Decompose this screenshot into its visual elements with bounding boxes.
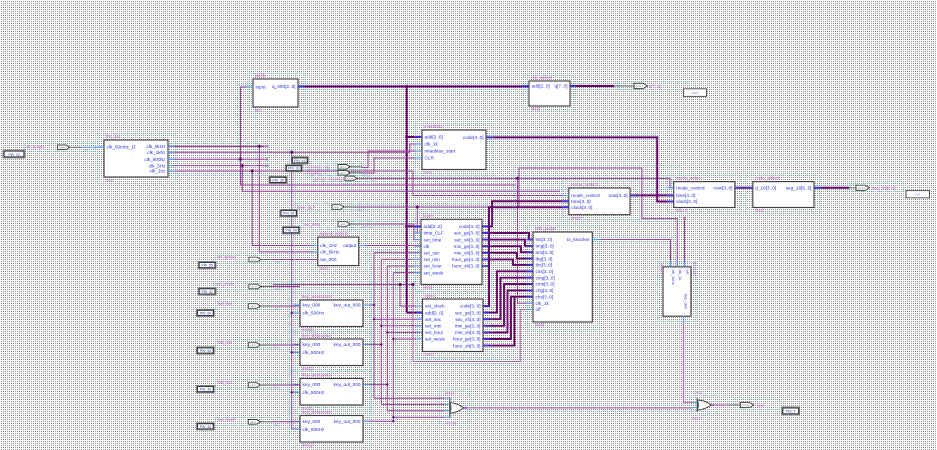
svg-text:clk_500Hz: clk_500Hz (303, 350, 326, 355)
svg-text:clk_1k: clk_1k (425, 142, 439, 147)
svg-text:PIN_54: PIN_54 (200, 311, 211, 315)
svg-text:clk_1hz: clk_1hz (150, 169, 167, 174)
svg-text:mode_select: mode_select (571, 182, 598, 187)
svg-text:VCC: VCC (358, 209, 363, 212)
svg-text:INPUT: INPUT (250, 345, 257, 347)
svg-text:VCC: VCC (274, 387, 279, 390)
svg-text:set_min: set_min (424, 257, 441, 262)
svg-text:VCC: VCC (371, 180, 376, 183)
svg-text:PIN_52: PIN_52 (200, 349, 211, 353)
svg-text:set_min: set_min (425, 324, 442, 329)
svg-text:cmg[3..0]: cmg[3..0] (536, 275, 555, 280)
svg-text:bee_000: bee_000 (684, 294, 688, 309)
svg-text:inst10: inst10 (571, 215, 583, 220)
svg-text:AE22: AE22 (692, 91, 699, 95)
svg-text:PIN_42: PIN_42 (201, 290, 212, 294)
svg-text:now[3..0]: now[3..0] (713, 186, 732, 191)
svg-text:PIN_59: PIN_59 (201, 264, 212, 268)
svg-text:hour_sh[3..0]: hour_sh[3..0] (452, 264, 479, 269)
svg-text:set_week: set_week (425, 337, 445, 342)
svg-text:set_sec: set_sec (424, 251, 441, 256)
svg-text:set_week: set_week (218, 417, 237, 422)
svg-text:key_debounce: key_debounce (302, 294, 332, 299)
svg-text:INPUT: INPUT (334, 207, 341, 209)
svg-text:clk_1k: clk_1k (678, 270, 682, 281)
svg-text:hour_sh[3..0]: hour_sh[3..0] (453, 343, 480, 348)
svg-text:set_time: set_time (424, 237, 442, 242)
svg-text:miaobiao_start: miaobiao_start (425, 149, 456, 154)
svg-text:chg[3..0]: chg[3..0] (536, 288, 554, 293)
svg-text:miaobiao: miaobiao (424, 124, 443, 129)
svg-text:key_000: key_000 (303, 342, 321, 347)
svg-text:clk_50mhz_1f: clk_50mhz_1f (107, 145, 137, 150)
svg-text:sec_ge[3..0]: sec_ge[3..0] (455, 310, 481, 315)
svg-text:inst5: inst5 (531, 107, 541, 112)
svg-text:clk_500hz: clk_500hz (144, 157, 166, 162)
svg-text:seg_16[6..0]: seg_16[6..0] (872, 186, 895, 191)
svg-text:PIN_46: PIN_46 (200, 425, 211, 429)
svg-text:VCC: VCC (274, 423, 279, 426)
svg-text:PIN_Y: PIN_Y (786, 410, 797, 414)
svg-text:inst17: inst17 (692, 416, 702, 421)
svg-text:key_out_000: key_out_000 (334, 419, 361, 424)
svg-text:VCC: VCC (364, 168, 369, 171)
svg-text:timer: timer (423, 213, 434, 218)
svg-text:bee: bee (757, 403, 765, 408)
svg-text:mode_control: mode_control (571, 193, 599, 198)
svg-text:mode_control: mode_control (676, 186, 704, 191)
svg-text:INPUT: INPUT (251, 287, 258, 289)
svg-text:thg[3..0]: thg[3..0] (536, 256, 553, 261)
svg-text:to_knocker: to_knocker (567, 237, 590, 242)
svg-text:time[3..0]: time[3..0] (676, 193, 695, 198)
svg-text:chs[3..0]: chs[3..0] (536, 294, 554, 299)
svg-text:clk_500Hz: clk_500Hz (303, 390, 326, 395)
svg-text:PIN_30: PIN_30 (200, 388, 211, 392)
svg-text:CLR: CLR (425, 156, 435, 161)
svg-text:PIN_43: PIN_43 (294, 159, 305, 163)
svg-text:key_000: key_000 (303, 303, 321, 308)
svg-text:key_debounce: key_debounce (302, 333, 332, 338)
svg-text:VCC: VCC (274, 261, 279, 264)
svg-text:INPUT: INPUT (340, 224, 347, 226)
svg-text:set_sec: set_sec (425, 317, 442, 322)
svg-text:set_hour: set_hour (424, 264, 443, 269)
svg-text:VCC: VCC (364, 174, 369, 177)
svg-text:set_clock: set_clock (425, 304, 445, 309)
svg-text:a[7..0]: a[7..0] (649, 84, 661, 89)
svg-text:tss[3..0]: tss[3..0] (536, 237, 552, 242)
svg-text:min_ge[3..0]: min_ge[3..0] (455, 324, 481, 329)
svg-text:inst12: inst12 (676, 208, 688, 213)
svg-text:seg_16[6..0]: seg_16[6..0] (786, 186, 812, 191)
svg-text:clk_1Hz: clk_1Hz (320, 243, 337, 248)
svg-text:code[3..0]: code[3..0] (460, 304, 481, 309)
svg-text:VCC: VCC (274, 308, 279, 311)
svg-text:jishi8: jishi8 (254, 73, 266, 78)
svg-text:PIN_44: PIN_44 (285, 229, 296, 233)
svg-text:min_ge[3..0]: min_ge[3..0] (454, 244, 480, 249)
svg-text:VCC: VCC (274, 347, 279, 350)
svg-text:clk_5kHz: clk_5kHz (320, 250, 340, 255)
svg-text:bt4or: bt4or (445, 391, 455, 396)
svg-text:input: input (256, 85, 267, 90)
svg-text:clock[3..0]: clock[3..0] (571, 205, 592, 210)
svg-text:inst1: inst1 (320, 266, 330, 271)
svg-text:dig_select: dig_select (531, 75, 552, 80)
svg-text:set_clock: set_clock (216, 282, 234, 287)
svg-text:sw_speed: sw_speed (217, 255, 237, 260)
svg-text:sec_sh[3..0]: sec_sh[3..0] (455, 317, 480, 322)
svg-text:clk: clk (424, 244, 430, 249)
svg-text:inst: inst (106, 178, 114, 183)
svg-text:PIN_38: PIN_38 (272, 178, 283, 182)
svg-text:sec_sh[3..0]: sec_sh[3..0] (454, 237, 479, 242)
svg-text:min_sh[3..0]: min_sh[3..0] (454, 251, 480, 256)
svg-text:add[2..0]: add[2..0] (424, 224, 442, 229)
svg-text:code_select: code_select (755, 175, 780, 180)
svg-text:OUTPUT: OUTPUT (635, 86, 644, 88)
svg-text:key_debounce: key_debounce (302, 409, 332, 414)
svg-text:q_000[2..0]: q_000[2..0] (272, 84, 295, 89)
svg-text:set_hour: set_hour (425, 330, 444, 335)
svg-text:code[3..0]: code[3..0] (459, 224, 480, 229)
svg-text:PIN_39: PIN_39 (288, 167, 299, 171)
svg-text:clk_50MH: clk_50MH (26, 145, 45, 150)
svg-text:INPUT: INPUT (250, 306, 257, 308)
svg-text:OR2: OR2 (694, 390, 702, 395)
svg-text:clk_1k: clk_1k (536, 301, 550, 306)
svg-text:set_week: set_week (424, 270, 444, 275)
svg-text:miaobiao_c: miaobiao_c (306, 171, 326, 176)
svg-text:inst10: inst10 (302, 327, 314, 332)
svg-text:sw_000: sw_000 (320, 257, 337, 262)
svg-text:key_debounce: key_debounce (302, 372, 332, 377)
svg-text:choose_miaobiao: choose_miaobiao (313, 176, 345, 181)
svg-text:clk_500Hz: clk_500Hz (303, 311, 326, 316)
svg-text:set_time: set_time (304, 222, 320, 227)
svg-text:inst16: inst16 (446, 421, 456, 426)
svg-text:add[2..0]: add[2..0] (532, 84, 550, 89)
svg-text:mode_select: mode_select (676, 175, 703, 180)
svg-text:sec_ge[3..0]: sec_ge[3..0] (454, 231, 480, 236)
svg-text:q[7..0]: q[7..0] (554, 84, 567, 89)
svg-text:key_000: key_000 (303, 382, 321, 387)
svg-text:time_CLF: time_CLF (297, 205, 316, 210)
svg-text:PIN_23: PIN_23 (8, 153, 19, 157)
svg-text:tmg[3..0]: tmg[3..0] (536, 244, 554, 249)
svg-text:tms[3..0]: tms[3..0] (536, 250, 554, 255)
svg-text:inst2: inst2 (755, 208, 765, 213)
svg-text:VCC: VCC (364, 226, 369, 229)
svg-text:inst20: inst20 (660, 264, 664, 274)
svg-text:bell_judge: bell_judge (535, 226, 556, 231)
svg-text:output: output (343, 243, 357, 248)
svg-text:hour_ge[3..0]: hour_ge[3..0] (452, 257, 480, 262)
svg-text:hour_ge[3..0]: hour_ge[3..0] (453, 337, 481, 342)
svg-text:inst: inst (255, 108, 263, 113)
svg-text:set_sec: set_sec (218, 301, 232, 306)
svg-text:clk_1kHz: clk_1kHz (671, 270, 675, 286)
svg-text:fre_div: fre_div (106, 134, 120, 139)
svg-text:add[2..0]: add[2..0] (425, 310, 443, 315)
svg-text:OUTPUT: OUTPUT (857, 188, 866, 190)
svg-text:INPUT: INPUT (250, 385, 257, 387)
svg-text:min_sh[3..0]: min_sh[3..0] (455, 330, 481, 335)
svg-text:clk_5kHz: clk_5kHz (146, 144, 166, 149)
svg-text:inst: inst (424, 170, 432, 175)
svg-text:set_hou: set_hou (218, 380, 234, 385)
svg-text:ths[3..0]: ths[3..0] (536, 263, 553, 268)
svg-text:key_000: key_000 (303, 419, 321, 424)
svg-text:speed_select: speed_select (320, 231, 348, 236)
svg-text:INPUT: INPUT (340, 167, 347, 169)
svg-text:VCC: VCC (274, 288, 279, 291)
svg-text:clock[3..0]: clock[3..0] (676, 199, 697, 204)
svg-text:key_out_000: key_out_000 (334, 342, 361, 347)
svg-text:clk_5Hz: clk_5Hz (149, 163, 166, 168)
svg-text:key_out_000: key_out_000 (334, 303, 361, 308)
svg-text:key_out_000: key_out_000 (334, 382, 361, 387)
svg-text:inst13: inst13 (302, 443, 314, 448)
svg-text:inst8: inst8 (535, 323, 545, 328)
svg-text:css[3..0]: css[3..0] (536, 269, 553, 274)
svg-text:INPUT: INPUT (60, 147, 67, 149)
svg-text:INPUT: INPUT (347, 179, 354, 181)
svg-text:VCC: VCC (83, 149, 88, 152)
svg-text:INPUT: INPUT (340, 173, 347, 175)
svg-text:clk_1khz: clk_1khz (147, 150, 166, 155)
svg-text:OUTPUT: OUTPUT (742, 405, 751, 407)
svg-text:INPUT: INPUT (250, 422, 257, 424)
svg-text:clk_500Hz: clk_500Hz (303, 427, 326, 432)
svg-text:K25: K25 (915, 192, 920, 196)
svg-text:set_min: set_min (218, 340, 233, 345)
svg-text:knocker: knocker (693, 263, 698, 278)
svg-text:PIN_55: PIN_55 (283, 212, 294, 216)
svg-text:off: off (536, 307, 542, 312)
svg-text:INPUT: INPUT (251, 260, 258, 262)
svg-text:inst4: inst4 (425, 352, 435, 357)
svg-text:time[3..0]: time[3..0] (571, 199, 590, 204)
svg-text:time_CLF: time_CLF (424, 231, 444, 236)
svg-text:now[3..0]: now[3..0] (608, 193, 627, 198)
svg-text:d_16[3..0]: d_16[3..0] (755, 186, 776, 191)
svg-text:miaobiao_sta: miaobiao_sta (306, 165, 331, 170)
svg-text:cms[3..0]: cms[3..0] (536, 282, 555, 287)
svg-text:add[2..0]: add[2..0] (425, 135, 443, 140)
svg-text:code[3..0]: code[3..0] (463, 135, 484, 140)
svg-text:clock: clock (425, 293, 436, 298)
svg-text:inst3: inst3 (423, 285, 433, 290)
